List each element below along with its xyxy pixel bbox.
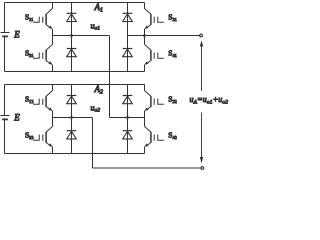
svg-text:S12: S12 [25,95,33,104]
svg-text:S42: S42 [168,131,176,140]
svg-text:S11: S11 [25,13,33,22]
svg-text:uo2: uo2 [91,103,101,113]
diode VD11 (cell 1 left upper) [67,13,77,21]
IGBT S31 [33,44,53,65]
wire: cell 1 diode column 1 [71,3,73,72]
wire: cell 1 left midpoint run [53,35,110,37]
wire: S12 emitter lead [52,111,54,118]
svg-text:S22: S22 [168,95,176,104]
wire: S11 collector lead [52,3,54,9]
wire: S42 emitter lead [144,147,146,154]
wire: cell 2 left midpoint run [53,117,93,119]
IGBT S12 [33,91,53,112]
wire: cell 2 bottom rail [5,153,145,155]
wire: S41 collector lead [144,36,146,45]
svg-text:A1: A1 [94,2,104,13]
diode VD32 (cell 2 left lower) [67,131,77,139]
diode VD22 (cell 2 right upper) [123,96,133,104]
wire: u_o1 tap drop to cell 2 right midpoint [109,36,111,118]
wire: cell 1 top rail [5,2,145,4]
diode VD41 (cell 1 right lower) [123,49,133,57]
svg-text:S32: S32 [25,131,33,140]
IGBT S32 [33,126,53,147]
IGBT S42 [144,126,164,147]
svg-text:uA=uo1+uo2: uA=uo1+uo2 [190,95,229,105]
wire: cell 1 left rail upper [4,3,6,33]
node: cell 1 right leg junction [143,34,146,37]
output terminal (bottom) [201,167,204,170]
IGBT S21 [144,9,164,30]
svg-text:S31: S31 [25,49,33,58]
wire: S21 emitter lead [144,29,146,36]
diode VD31 (cell 1 left lower) [67,49,77,57]
battery E (cell 1) [1,32,10,34]
svg-text:uo1: uo1 [91,21,101,31]
IGBT S41 [144,44,164,65]
node: cell 1 left diode junction [70,34,73,37]
wire: cell 2 top rail [5,84,145,86]
battery E (cell 2) [1,115,10,117]
wire: cell 1 right midpoint run to output [128,35,200,37]
IGBT S22 [144,91,164,112]
svg-text:A2: A2 [94,84,104,95]
wire: cell 2 diode column 1 [71,85,73,154]
svg-text:E: E [13,29,20,39]
diode VD12 (cell 2 left upper) [67,96,77,104]
diode VD21 (cell 1 right upper) [123,13,133,21]
svg-text:S21: S21 [168,13,176,22]
wire: S32 emitter lead [52,147,54,154]
voltage arrow uA upper shaft with up arrowhead [201,46,203,91]
wire: cell 2 diode column 2 [127,85,129,154]
wire: cell 1 bottom rail [5,71,145,73]
wire: cell 2 left rail upper [4,85,6,116]
IGBT S11 [33,9,53,30]
wire: S12 collector lead [52,85,54,91]
wire: S22 emitter lead [144,111,146,118]
wire: S41 emitter lead [144,65,146,72]
wire: cell 1 left rail lower [4,36,6,71]
diode VD42 (cell 2 right lower) [123,131,133,139]
wire: S22 collector lead [144,85,146,91]
wire: cell 1 diode column 2 [127,3,129,72]
node: cell 2 right diode junction [126,116,129,119]
wire: drop from cell 2 left midpoint to bottom output [92,118,94,169]
voltage arrow uA lower shaft with down arrowhead [201,113,203,158]
wire: S42 collector lead [144,118,146,127]
wire: S11 emitter lead [52,29,54,36]
wire: cell 2 left rail lower [4,119,6,153]
node: cell 2 left diode junction [70,116,73,119]
wire: bottom output run [93,167,201,169]
svg-text:E: E [13,112,20,122]
wire: S31 emitter lead [52,65,54,72]
wire: S32 collector lead [52,118,54,127]
svg-text:S41: S41 [168,49,176,58]
wire: S21 collector lead [144,3,146,9]
wire: S31 collector lead [52,36,54,45]
output terminal (top) [200,34,203,37]
wire: cell 2 right midpoint run [110,117,145,119]
